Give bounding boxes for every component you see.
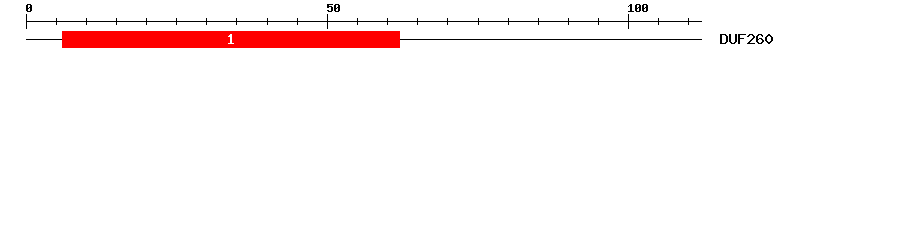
label DUF260 bbox=[720, 34, 773, 44]
ruler minor ticks every 5 residues bbox=[56, 18, 689, 25]
background bbox=[0, 0, 900, 58]
domain box DUF260 region 1 bbox=[62, 31, 400, 48]
ruler label 100 bbox=[628, 4, 648, 12]
domain number 1 bbox=[228, 34, 234, 44]
ruler baseline bbox=[26, 21, 702, 22]
ruler label 50 bbox=[327, 4, 340, 12]
ruler major ticks at 0, 50, 100 bbox=[26, 14, 629, 29]
ruler label 0 bbox=[26, 4, 32, 12]
sequence line bbox=[26, 39, 702, 40]
